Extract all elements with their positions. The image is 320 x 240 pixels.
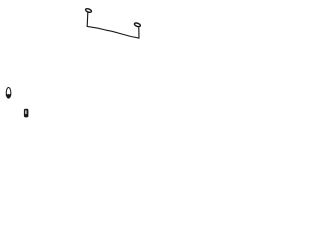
right post wire: [138, 27, 140, 38]
small oval A: [6, 88, 11, 99]
rope right loop: [134, 22, 141, 27]
left post wire: [86, 12, 89, 26]
oval A bottom blob: [7, 94, 10, 98]
oval A thick bottom arc: [7, 95, 11, 97]
rope left loop: [85, 8, 92, 13]
small capsule B: [24, 109, 29, 118]
rope line: [87, 26, 139, 38]
